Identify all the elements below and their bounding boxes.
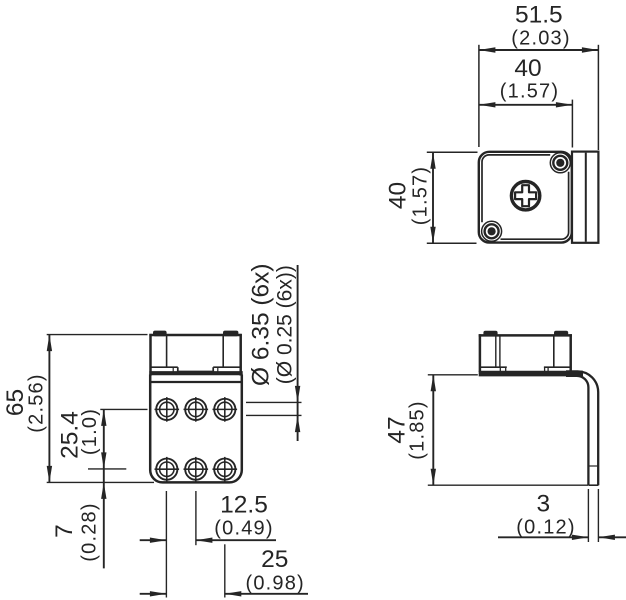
rotated dim text 7 [51,524,78,538]
extension line hole row 2 [88,468,126,470]
rotated dim text 65 [2,389,29,416]
bracket leg tick [588,465,598,467]
dim line 51.5 [479,49,599,51]
body inner line right [553,336,555,367]
dim line 47 [432,375,434,485]
rotated label diameter 6.35 (6x) [247,263,274,386]
extension line hole col 2 [195,491,197,545]
center phillips screw circle [511,182,539,210]
bracket plate outline (front) [150,375,242,483]
screw bottom-left [485,224,499,238]
dim text 12.5 [220,491,268,518]
svg-text:12.5: 12.5 [220,491,268,518]
center phillips screw cross [515,185,536,206]
extension line bottom (47) [428,484,588,486]
svg-text:7: 7 [51,524,78,538]
dim line 25 [140,593,167,595]
dim text 40 [514,55,541,82]
svg-text:40: 40 [514,55,541,82]
dim line hole diameter [297,265,299,441]
bracket fold heavy band (front) [149,371,242,375]
dim line 3 right part [598,536,626,538]
dim line 3 left part [498,536,588,538]
dim text (0.49) [214,517,273,539]
dim text (1.57) [500,81,559,103]
extension line left of 51.5 [478,45,480,147]
mounting tab right (front) [223,331,238,337]
hole r2c2 [184,457,209,482]
bracket leg bottom edge [588,484,598,486]
rotated dim text (1.0) [79,408,101,455]
hole r2c1 [155,457,180,482]
svg-text:(Ø 0.25 (6x)): (Ø 0.25 (6x)) [274,265,297,384]
sensor body top edge (front) [149,334,241,337]
rotated dim text 40 (left of top view) [385,182,412,209]
dim line 40 horizontal [479,104,573,106]
dim line 12.5 [140,539,167,541]
bracket fold line 2 (front) [149,381,242,383]
extension line top (47) [428,374,478,376]
rotated dim text (2.56) [25,373,47,432]
rotated dim text (1.57) [410,166,432,225]
sensor body left edge [479,334,482,372]
body inner line left (front) [166,336,168,367]
hole r2c3 [213,457,238,482]
hole r1c3 [213,397,238,422]
body bottom line left segment [480,366,507,368]
bracket bottom surface with inner bend [566,376,588,485]
extension line top (65) [47,334,148,336]
body bottom line right segment [544,366,571,368]
sensor housing outline (top view) [479,152,572,243]
dim text (0.12) [516,517,575,539]
rotated dim text 25.4 [57,411,84,459]
screw boss top-right [550,153,570,173]
svg-text:(0.28): (0.28) [78,502,100,561]
dim line 65 [48,335,50,483]
svg-text:(2.56): (2.56) [25,373,47,432]
extension line hole col 1 [165,491,167,598]
svg-text:(1.0): (1.0) [79,408,101,455]
mounting tab left (front) [153,331,167,337]
foot edges right [544,367,546,371]
svg-text:Ø 6.35 (6x): Ø 6.35 (6x) [247,263,274,386]
foot edges left [499,367,501,371]
rotated label (diameter 0.25 (6x)) [274,265,297,384]
notch floor bump (front) [177,371,214,373]
rotated dim text 47 [384,416,411,443]
svg-text:3: 3 [536,491,550,518]
sensor body top edge [479,334,572,337]
hole r1c1 [155,397,180,422]
svg-text:(0.49): (0.49) [214,517,273,539]
bracket top surface with outer bend [566,371,598,485]
notch edges (front) [177,367,179,372]
extension lines hole diameter [246,401,302,403]
mounting tab right (side view) [554,331,568,337]
sensor body right edge [569,334,572,372]
svg-text:51.5: 51.5 [515,2,563,29]
bracket plate solid band [479,371,583,377]
svg-text:(0.98): (0.98) [245,572,304,594]
housing inner contour [482,155,569,239]
hole r1c2 [184,397,209,422]
dim text 25 [261,546,288,573]
extension line bottom (40 vertical) [427,242,477,244]
extension line hole row 1 [100,408,147,410]
svg-text:(1.85): (1.85) [407,400,429,459]
extension line top (40 vertical) [427,151,478,153]
body bottom line right segment (front) [213,366,240,368]
dim text (2.03) [511,28,570,50]
svg-text:40: 40 [385,182,412,209]
extension lines of leg thickness [587,489,589,542]
body side left (front) [149,334,152,376]
svg-text:(1.57): (1.57) [500,81,559,103]
dim text 51.5 [515,2,563,29]
extension line hole col 3 [224,544,226,597]
extension line bottom (65 and 7) [47,481,154,483]
body side right (front) [239,334,242,376]
body inner line left (doubled) [495,336,497,367]
extension line right of 40 [571,100,573,148]
extension line right of 51.5 [597,45,599,150]
rotated dim text (1.85) [407,400,429,459]
bracket strip inner line [585,153,587,242]
screw top-right [553,156,567,170]
dim text 3 [536,491,550,518]
screw boss bottom-left [482,221,502,241]
mounting tab left (side view) [483,331,497,337]
svg-text:(0.12): (0.12) [516,517,575,539]
body inner line right (front) [222,336,224,367]
svg-text:(2.03): (2.03) [511,28,570,50]
bracket edge strip (top view right) [572,152,598,243]
dim line 25.4 and 7 [103,409,105,568]
dim line 40 vertical [432,152,434,243]
dim text (0.98) [245,572,304,594]
svg-text:(1.57): (1.57) [410,166,432,225]
body bottom line left segment (front) [151,366,177,368]
svg-text:25: 25 [261,546,288,573]
rotated dim text (0.28) [78,502,100,561]
